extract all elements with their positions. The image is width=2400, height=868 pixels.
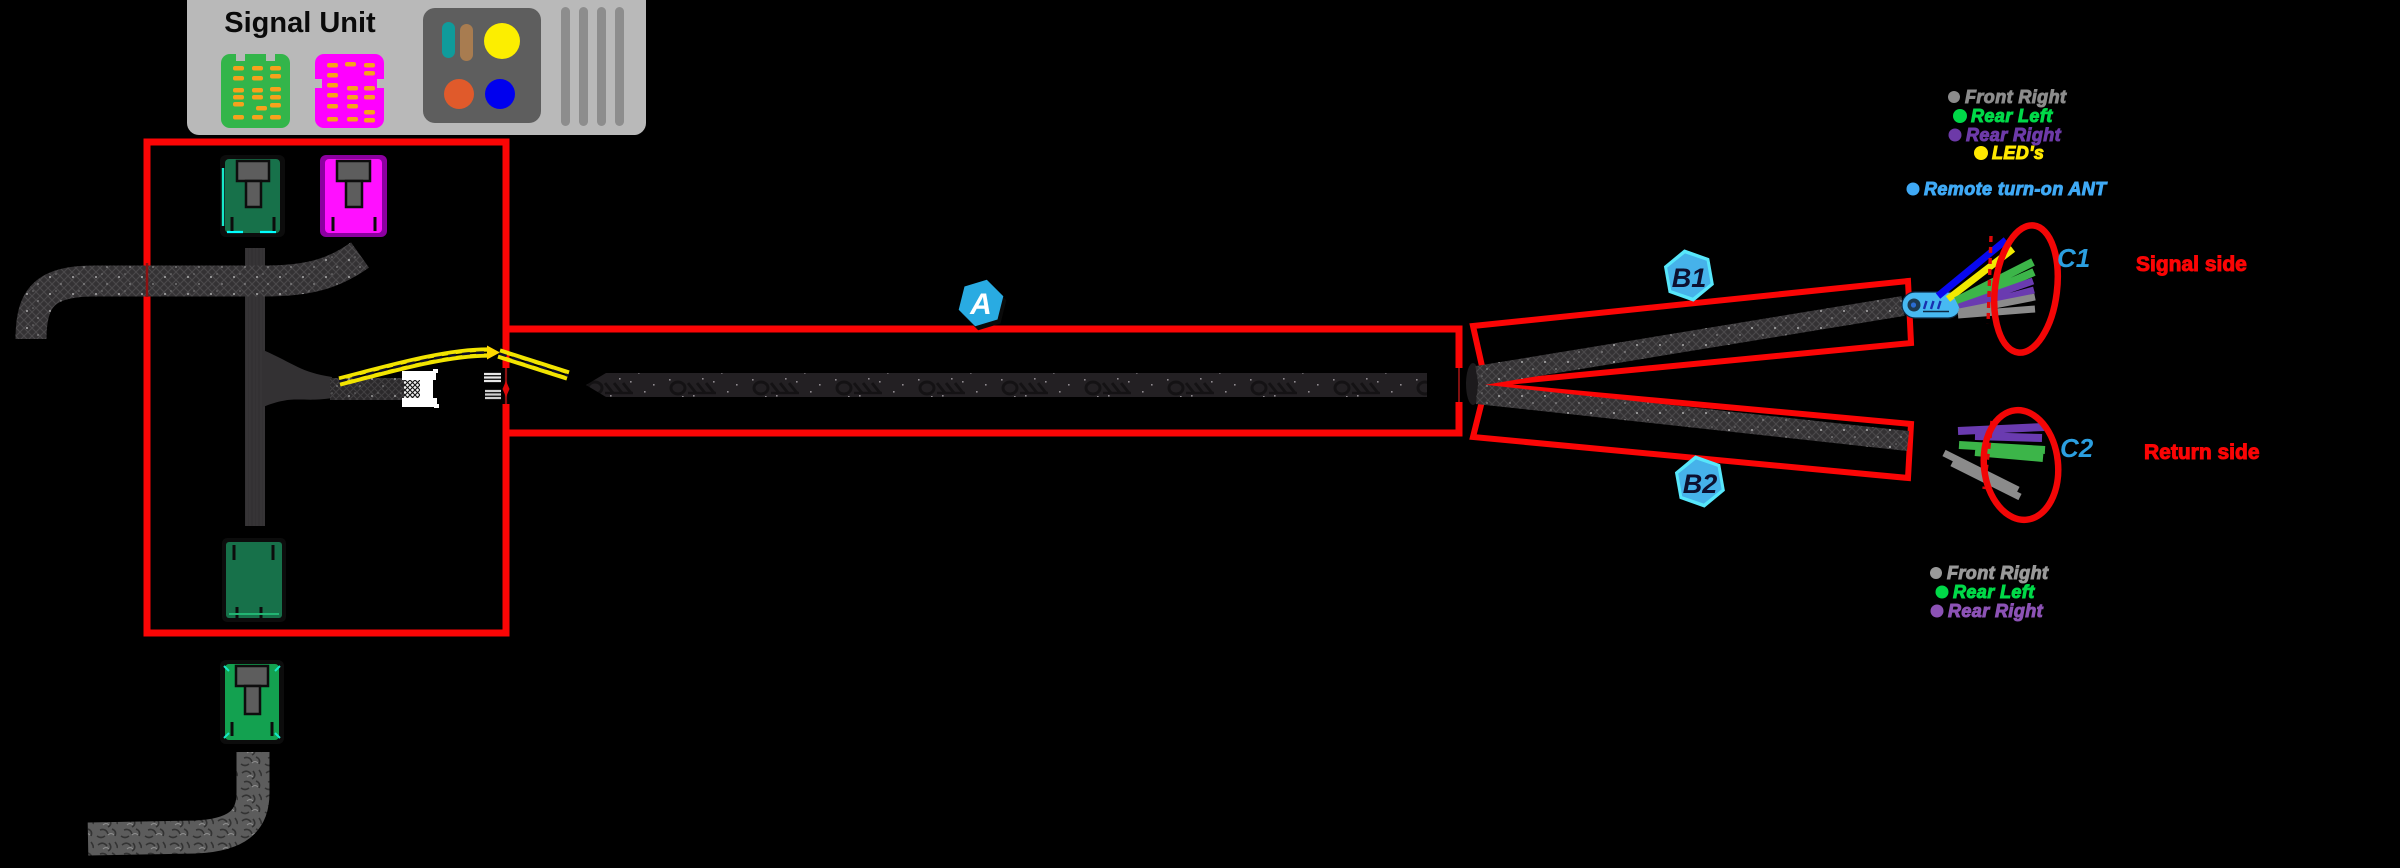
A box edge gap (501, 368, 511, 404)
C1 wire blue (1938, 240, 2006, 296)
connector P1 dark green (in box) (220, 155, 285, 237)
C1 wire green pair (1956, 262, 2034, 305)
svg-text:Return side: Return side (2144, 441, 2260, 464)
C1 strip line (red dashed) (1988, 236, 1991, 324)
svg-text:Signal side: Signal side (2136, 253, 2247, 276)
svg-text:LED's: LED's (1992, 143, 2044, 163)
yellow jumper wire (right of box edge) (498, 351, 569, 379)
main loom braid (horizontal) (31, 255, 360, 339)
C2 wire gray pair (1944, 453, 2020, 497)
heatsink fins (561, 7, 624, 126)
svg-text:Rear Right: Rear Right (1948, 601, 2044, 621)
C2 inspection ellipse (1978, 406, 2063, 523)
splice stripes left (484, 374, 507, 381)
teal lamp (442, 22, 455, 58)
C1 inspection ellipse (1987, 222, 2064, 357)
hex label B1 (1662, 245, 1717, 305)
blue lamp (485, 79, 515, 109)
connector J1 green (unit face) (221, 54, 290, 128)
branch B2 box (red outline) (1473, 385, 1911, 478)
svg-text:B2: B2 (1683, 469, 1718, 499)
C1 wire gray pair (1958, 297, 2035, 315)
svg-text:Rear Left: Rear Left (1953, 582, 2035, 602)
yellow jumper wire (left of box edge) (339, 346, 500, 385)
white inline connector (402, 369, 439, 408)
pigtail braid stub (330, 378, 404, 400)
red line trace through braid (146, 263, 149, 297)
shield crosshatch segment (404, 378, 420, 399)
bell mouth to cable (263, 350, 332, 407)
branch B2 braid (1477, 394, 1908, 441)
svg-text:C2: C2 (2060, 433, 2094, 463)
signal unit enclosure (187, 0, 646, 135)
fan point ellipse (1466, 363, 1480, 405)
branch B1 braid (1477, 306, 1903, 376)
hex label B2 (1673, 451, 1728, 511)
brown lamp (460, 24, 473, 61)
harness trunk (vertical bar) (245, 248, 265, 526)
C2 wire green pair (1959, 445, 2045, 458)
C2 wire purple pair (1958, 427, 2044, 438)
legend C1: front right (1907, 87, 2109, 199)
svg-text:C1: C1 (2057, 243, 2090, 273)
C1 wire yellow (1948, 249, 2013, 299)
branch B1 box (red outline) (1473, 281, 1911, 384)
red edge gap covers (1454, 368, 1464, 402)
connector P4 green (below box) (220, 660, 284, 744)
C2 strip line (red dashed) (1984, 421, 1992, 489)
cable A braid (586, 373, 1427, 397)
vehicle harness box (red outline) (147, 142, 506, 633)
connector P2 magenta (in box) (320, 155, 387, 237)
C1 wire purple pair (1959, 281, 2034, 310)
indicator panel (unit face) (423, 8, 541, 123)
svg-text:Front Right: Front Right (1965, 87, 2067, 107)
svg-text:Front Right: Front Right (1947, 563, 2049, 583)
splice stripes right (485, 391, 508, 398)
hex label A (956, 275, 1009, 335)
legend C2 (1930, 563, 2049, 621)
svg-text:Rear Left: Rear Left (1971, 106, 2053, 126)
svg-text:Signal Unit: Signal Unit (224, 7, 376, 39)
cable A box (red outline) (506, 329, 1459, 433)
yellow lamp (484, 23, 520, 59)
svg-text:A: A (969, 288, 992, 321)
connector P3 dark green (in box, bottom) (222, 538, 286, 622)
inline connector (blue pill) (1902, 292, 1961, 318)
orange lamp (444, 79, 474, 109)
svg-text:Rear Right: Rear Right (1966, 125, 2062, 145)
tail loom braid (bottom curl) (88, 752, 253, 839)
svg-text:Remote turn-on ANT: Remote turn-on ANT (1924, 179, 2108, 199)
svg-text:B1: B1 (1672, 263, 1707, 293)
connector J2 magenta (unit face) (315, 54, 384, 128)
